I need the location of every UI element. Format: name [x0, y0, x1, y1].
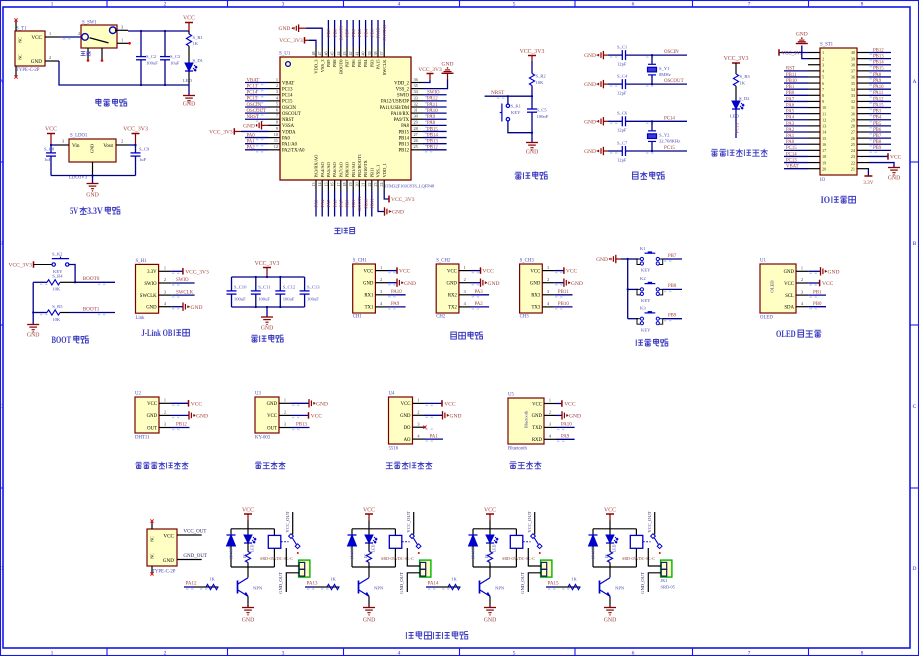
- svg-text:3: 3: [164, 289, 166, 294]
- wire emitter to ground: [489, 596, 491, 607]
- S_ST1 left net wires: [784, 70, 808, 72]
- unconnected pin marks on S_T1: [15, 21, 17, 31]
- svg-text:PB11: PB11: [369, 168, 374, 178]
- base resistor 1K: [568, 586, 581, 588]
- svg-text:VDD_1: VDD_1: [382, 163, 387, 177]
- svg-text:OLED: OLED: [770, 280, 775, 293]
- svg-text:2: 2: [801, 277, 803, 282]
- svg-text:D: D: [913, 566, 917, 572]
- svg-text:PB11: PB11: [370, 198, 375, 209]
- svg-text:VCC: VCC: [564, 402, 576, 408]
- svg-text:GND: GND: [86, 193, 99, 199]
- connector S_ST1 IO expansion: [820, 48, 857, 175]
- svg-text:VCC_3V3: VCC_3V3: [185, 269, 209, 275]
- svg-text:PC13: PC13: [247, 84, 258, 89]
- svg-text:Vin: Vin: [72, 143, 80, 149]
- svg-text:PB7: PB7: [873, 134, 882, 139]
- svg-text:2: 2: [284, 410, 286, 415]
- svg-text:1: 1: [822, 50, 824, 55]
- svg-text:GND: GND: [604, 618, 617, 624]
- svg-text:S_C3: S_C3: [170, 54, 181, 59]
- svg-text:S_R4: S_R4: [52, 274, 63, 279]
- svg-text:A: A: [913, 79, 917, 85]
- net VCC_OUT wire (contact): [413, 512, 415, 535]
- svg-text:PA2: PA2: [786, 128, 795, 133]
- chip top net wires and rotated labels: [327, 20, 329, 47]
- svg-text:VCC_OUT: VCC_OUT: [183, 530, 206, 535]
- svg-text:S_CH2: S_CH2: [436, 259, 451, 264]
- svg-text:PB14: PB14: [399, 136, 410, 141]
- svg-text:PB6: PB6: [351, 59, 356, 68]
- chip left pins with numbers and names: [268, 82, 280, 84]
- svg-text:32: 32: [414, 101, 418, 106]
- svg-text:GND_OUT: GND_OUT: [399, 572, 404, 594]
- svg-text:25: 25: [851, 142, 855, 147]
- net PA9 wire: [556, 438, 575, 440]
- svg-text:2: 2: [78, 31, 80, 36]
- svg-text:OSCOUT: OSCOUT: [282, 112, 301, 117]
- svg-text:PB13: PB13: [296, 423, 307, 428]
- net PB11 wire: [554, 294, 572, 296]
- svg-text:PA8: PA8: [427, 121, 436, 126]
- svg-text:23: 23: [851, 154, 855, 159]
- svg-text:BOOT: BOOT: [52, 335, 72, 345]
- svg-text:VCC: VCC: [163, 533, 174, 539]
- svg-text:PA5: PA5: [786, 110, 795, 115]
- flyback diode 1N4007: [472, 529, 474, 535]
- svg-text:PA10/RX: PA10/RX: [391, 112, 410, 117]
- power VCC at U4: [425, 402, 443, 404]
- header S_H1 J-Link: [136, 264, 159, 313]
- svg-text:3: 3: [276, 89, 278, 94]
- svg-text:SWCLK: SWCLK: [382, 24, 387, 41]
- svg-text:1: 1: [121, 37, 123, 42]
- svg-text:PA9: PA9: [427, 115, 436, 120]
- svg-text:PA3: PA3: [786, 122, 795, 127]
- svg-text:SRD-05VDC-SL-C: SRD-05VDC-SL-C: [260, 556, 293, 561]
- svg-text:S_C12: S_C12: [283, 284, 296, 289]
- svg-text:SRD-05VDC-SL-C: SRD-05VDC-SL-C: [622, 556, 655, 561]
- svg-text:U5: U5: [508, 393, 514, 398]
- svg-text:LED: LED: [613, 544, 617, 552]
- ground GND at S_H1 pin 4: [171, 306, 183, 308]
- svg-text:S_CH3: S_CH3: [520, 259, 535, 264]
- svg-text:5516: 5516: [389, 447, 399, 452]
- svg-text:B: B: [0, 241, 4, 247]
- svg-text:PA15: PA15: [873, 103, 884, 108]
- svg-text:33: 33: [851, 93, 855, 98]
- svg-text:PA4/AO: PA4/AO: [320, 161, 325, 177]
- power 3.3V at pin 21: [867, 169, 870, 176]
- svg-text:10K: 10K: [536, 80, 545, 85]
- svg-text:PB11: PB11: [558, 290, 569, 295]
- ground GND at VSS_1 pin 23: [378, 191, 385, 212]
- svg-text:VCC: VCC: [242, 507, 254, 513]
- svg-text:2: 2: [549, 410, 551, 415]
- svg-text:PB5: PB5: [873, 122, 882, 127]
- svg-text:PA1: PA1: [786, 134, 795, 139]
- svg-text:3: 3: [282, 651, 285, 656]
- svg-text:PB3: PB3: [873, 110, 882, 115]
- svg-text:12pF: 12pF: [617, 128, 627, 133]
- ground GND at pin 22: [869, 163, 894, 167]
- svg-text:PB6: PB6: [873, 128, 882, 133]
- svg-text:S_C7: S_C7: [617, 140, 628, 145]
- svg-text:2: 2: [121, 139, 123, 144]
- svg-text:PA10: PA10: [391, 290, 402, 295]
- svg-text:VCC_3V3: VCC_3V3: [8, 263, 32, 269]
- wire emitter to ground: [247, 596, 249, 607]
- svg-text:RXD: RXD: [532, 438, 543, 443]
- svg-text:TX1: TX1: [365, 306, 374, 311]
- title 温湿度检测模块: [135, 462, 142, 468]
- svg-text:1K: 1K: [330, 577, 336, 582]
- net PA10 wire: [556, 426, 575, 428]
- svg-text:PA11/USB/DM: PA11/USB/DM: [380, 106, 410, 111]
- svg-text:S_C6: S_C6: [617, 111, 628, 116]
- svg-text:K1: K1: [640, 246, 646, 251]
- module U5 Bluetooth: [508, 398, 544, 444]
- svg-text:PA11: PA11: [873, 91, 884, 96]
- relay coil SRD-05VDC-SL-C: [515, 529, 517, 536]
- svg-text:PB8: PB8: [332, 28, 337, 37]
- svg-text:10K: 10K: [52, 317, 61, 322]
- no-connect pin at U4: [423, 426, 426, 429]
- svg-text:100uF: 100uF: [307, 297, 319, 302]
- net PA3 wire: [471, 294, 489, 296]
- svg-text:8: 8: [822, 93, 824, 98]
- svg-text:PA5/AO: PA5/AO: [326, 161, 331, 177]
- svg-text:2: 2: [164, 410, 166, 415]
- svg-text:OUT: OUT: [267, 426, 277, 431]
- net PB9 wire: [663, 318, 682, 320]
- capacitor S_C9 1uF: [135, 145, 137, 153]
- power VCC_3V3 at S_H1 pin 1: [171, 270, 183, 272]
- power VCC at U3: [291, 414, 309, 416]
- flyback diode 1N4007: [592, 529, 594, 535]
- net PB13 wire: [291, 427, 310, 429]
- svg-text:PB9: PB9: [326, 28, 331, 37]
- svg-text:D: D: [0, 566, 4, 572]
- svg-text:1: 1: [549, 398, 551, 403]
- svg-text:S_D1: S_D1: [193, 58, 204, 63]
- flyback diode 1N4007: [351, 529, 353, 535]
- chip right net wires and labels: [423, 94, 447, 96]
- svg-text:1N4007: 1N4007: [230, 547, 234, 560]
- svg-text:GND: GND: [196, 414, 208, 420]
- svg-text:PB10: PB10: [558, 302, 569, 307]
- svg-text:42: 42: [348, 52, 353, 56]
- svg-text:1K: 1K: [451, 577, 457, 582]
- svg-text:1: 1: [380, 265, 382, 270]
- capacitor S_C8 1uF: [50, 145, 52, 153]
- LED S_D1: [185, 63, 193, 71]
- svg-text:38: 38: [851, 62, 855, 67]
- resistor S_R1 1K: [188, 31, 190, 34]
- wire relay top rail: [473, 528, 516, 530]
- svg-text:1: 1: [51, 2, 54, 8]
- svg-text:VBAT: VBAT: [786, 165, 799, 170]
- svg-text:2: 2: [547, 277, 549, 282]
- module U3 KY-003: [255, 397, 279, 433]
- svg-text:9: 9: [276, 126, 278, 131]
- svg-text:S_Y1: S_Y1: [659, 66, 670, 71]
- svg-text:100uF: 100uF: [146, 61, 158, 66]
- terminal block connector: [420, 560, 431, 577]
- svg-text:VCC: VCC: [267, 414, 277, 419]
- svg-text:IO: IO: [820, 178, 826, 183]
- svg-text:23: 23: [373, 183, 378, 187]
- svg-text:VCC: VCC: [484, 507, 496, 513]
- svg-text:BOOT0: BOOT0: [339, 25, 344, 41]
- svg-text:PB1/AO: PB1/AO: [351, 161, 356, 177]
- svg-text:GND: GND: [400, 414, 411, 419]
- svg-text:S_C10: S_C10: [234, 284, 247, 289]
- svg-text:15: 15: [822, 136, 826, 141]
- svg-text:11: 11: [274, 138, 278, 143]
- svg-text:VCC_3V3: VCC_3V3: [209, 129, 233, 135]
- svg-text:NPN: NPN: [253, 586, 263, 591]
- resistor S_R5 10K: [33, 312, 47, 314]
- relay LED: [489, 529, 491, 535]
- svg-text:LED: LED: [730, 114, 740, 119]
- svg-text:RX2: RX2: [448, 294, 458, 299]
- svg-text:SRD-05VDC-SL-C: SRD-05VDC-SL-C: [502, 556, 535, 561]
- svg-text:PB9: PB9: [873, 146, 882, 151]
- title 程序运行指示灯: [711, 149, 718, 156]
- svg-text:GND: GND: [242, 618, 255, 624]
- svg-text:5: 5: [276, 101, 278, 106]
- svg-text:8MHz: 8MHz: [659, 72, 671, 77]
- svg-text:1: 1: [417, 398, 419, 403]
- svg-text:GND_OUT: GND_OUT: [183, 554, 207, 559]
- svg-text:B: B: [913, 241, 917, 247]
- svg-text:3: 3: [164, 422, 166, 427]
- svg-text:GND: GND: [828, 269, 840, 275]
- switch bottom stubs (n.c.): [87, 48, 89, 60]
- svg-text:GND: GND: [191, 305, 203, 311]
- svg-text:NC: NC: [151, 553, 155, 559]
- svg-text:S_C5: S_C5: [537, 108, 548, 113]
- svg-text:PB15: PB15: [427, 127, 438, 132]
- ground GND (reset): [531, 133, 533, 142]
- title 晶振电路: [633, 172, 639, 179]
- wire relay top rail: [231, 528, 274, 530]
- svg-text:GND: GND: [147, 414, 158, 419]
- svg-text:3: 3: [547, 289, 549, 294]
- svg-text:GND_OUT: GND_OUT: [278, 572, 283, 594]
- svg-text:A: A: [0, 79, 4, 85]
- svg-text:Link: Link: [136, 316, 146, 321]
- svg-text:GND: GND: [584, 119, 596, 125]
- capacitor S_C7 12pF: [608, 150, 622, 152]
- net VCC_OUT wire (contact): [534, 512, 536, 535]
- svg-text:TX2: TX2: [448, 306, 457, 311]
- power VCC at S_CH1: [388, 270, 398, 272]
- svg-text:GND: GND: [446, 282, 457, 287]
- svg-text:5V: 5V: [70, 206, 78, 216]
- svg-text:2: 2: [464, 277, 466, 282]
- svg-text:C: C: [0, 404, 4, 410]
- ground GND (relay stage): [363, 607, 375, 609]
- svg-text:PA10: PA10: [561, 423, 572, 428]
- svg-text:32: 32: [851, 99, 855, 104]
- svg-text:SCL: SCL: [785, 294, 794, 299]
- switch S_SW1: [81, 25, 117, 48]
- svg-text:1K: 1K: [209, 577, 215, 582]
- transistor NPN: [368, 567, 370, 578]
- ground GND (relay stage): [242, 607, 254, 609]
- svg-text:18: 18: [822, 154, 826, 159]
- svg-text:47: 47: [317, 52, 322, 56]
- svg-text:10: 10: [822, 105, 826, 110]
- svg-text:10uF: 10uF: [170, 61, 180, 66]
- svg-text:VCC: VCC: [399, 269, 411, 275]
- svg-text:SDA: SDA: [784, 306, 794, 311]
- svg-text:PB0/AO: PB0/AO: [345, 161, 350, 177]
- connector TYPE-C-2P (relay power): [147, 529, 177, 566]
- svg-text:6: 6: [632, 2, 635, 8]
- svg-text:VCC: VCC: [191, 401, 203, 407]
- svg-text:3: 3: [282, 2, 285, 8]
- wire key bus: [621, 258, 628, 260]
- relay coil SRD-05VDC-SL-C: [635, 529, 637, 536]
- svg-text:PB0: PB0: [813, 302, 822, 307]
- svg-text:NC: NC: [19, 54, 23, 60]
- svg-text:VCC_OUT: VCC_OUT: [527, 511, 532, 532]
- svg-text:U1: U1: [760, 259, 766, 264]
- svg-text:VCC: VCC: [530, 269, 540, 274]
- svg-text:PB8: PB8: [332, 59, 337, 68]
- svg-text:9: 9: [822, 99, 824, 104]
- svg-text:RX3: RX3: [531, 294, 541, 299]
- svg-text:PB6: PB6: [351, 28, 356, 37]
- svg-text:OSCOUT: OSCOUT: [247, 109, 267, 114]
- svg-text:S_C9: S_C9: [139, 147, 150, 152]
- wire power ground bus: [45, 60, 59, 62]
- capacitor S_C10 100uF: [231, 277, 233, 291]
- net SWCLK wire: [171, 294, 194, 296]
- net GND_OUT wire (terminal): [648, 573, 661, 592]
- svg-text:28: 28: [851, 124, 855, 129]
- svg-text:21: 21: [851, 166, 855, 171]
- wire relay bottom rail: [231, 566, 274, 568]
- ground GND at pin 2: [802, 46, 808, 59]
- power VCC at U5 pin 1: [556, 403, 562, 405]
- svg-text:14: 14: [317, 183, 322, 187]
- svg-text:PA10: PA10: [427, 109, 438, 114]
- svg-text:TXD: TXD: [532, 426, 542, 431]
- svg-text:35: 35: [414, 83, 418, 88]
- chip bottom net wires and rotated labels: [315, 191, 317, 217]
- push button S_K2 KEY: [52, 263, 55, 266]
- net VCC_OUT wire (contact): [654, 512, 656, 535]
- net BOOT0 wire: [75, 281, 115, 283]
- capacitor S_C6 12pF: [608, 120, 622, 122]
- svg-text:48: 48: [311, 52, 316, 56]
- svg-text:PA10: PA10: [873, 85, 884, 90]
- svg-text:VDDA: VDDA: [282, 130, 296, 135]
- svg-text:39: 39: [367, 52, 372, 56]
- svg-text:PB4: PB4: [363, 28, 368, 37]
- svg-text:46: 46: [323, 52, 328, 56]
- svg-text:VCC: VCC: [363, 507, 375, 513]
- svg-text:7: 7: [748, 651, 751, 656]
- relay LED: [247, 529, 249, 535]
- svg-text:PA2/TX/A0: PA2/TX/A0: [282, 149, 305, 154]
- svg-text:37: 37: [379, 52, 384, 56]
- svg-text:28: 28: [414, 126, 418, 131]
- svg-text:S_U1: S_U1: [279, 52, 291, 57]
- svg-text:43: 43: [342, 52, 347, 56]
- transistor NPN: [609, 567, 611, 578]
- svg-text:PC14: PC14: [282, 94, 293, 99]
- svg-text:12: 12: [274, 144, 278, 149]
- svg-text:PA15: PA15: [548, 582, 559, 587]
- svg-text:40: 40: [361, 52, 366, 56]
- svg-text:PB1: PB1: [786, 85, 795, 90]
- module U2 DHT11: [135, 397, 159, 433]
- power VCC_3V3 at VDD_2 pin 36: [423, 80, 430, 83]
- svg-text:1K: 1K: [193, 41, 199, 46]
- svg-text:PA0: PA0: [247, 133, 256, 138]
- svg-text:K2: K2: [640, 276, 646, 281]
- svg-text:GND: GND: [796, 32, 808, 38]
- svg-text:VCC: VCC: [890, 154, 902, 160]
- svg-text:VCC_3V3: VCC_3V3: [391, 197, 415, 203]
- svg-text:GND: GND: [261, 326, 274, 332]
- svg-text:NC: NC: [19, 37, 23, 43]
- relay series resistor 1K: [609, 543, 611, 552]
- net PB0 wire: [808, 306, 826, 308]
- net BOOT1 wire: [70, 312, 115, 314]
- svg-text:VCC_OUT: VCC_OUT: [406, 511, 411, 532]
- svg-text:PA9: PA9: [561, 435, 570, 440]
- svg-text:VCC_3V3: VCC_3V3: [520, 49, 545, 55]
- svg-text:PB9: PB9: [326, 59, 331, 68]
- svg-text:PA12: PA12: [427, 97, 438, 102]
- flyback diode 1N4007: [230, 529, 232, 535]
- power VCC at S_CH2: [471, 270, 481, 272]
- svg-text:SRD-05VDC-SL-C: SRD-05VDC-SL-C: [381, 556, 414, 561]
- svg-text:PB4: PB4: [873, 116, 882, 121]
- svg-text:PC15: PC15: [247, 97, 258, 102]
- base resistor 1K: [327, 586, 340, 588]
- svg-text:3: 3: [549, 422, 551, 427]
- svg-text:S_SW1: S_SW1: [82, 21, 97, 26]
- net PA10 wire: [388, 294, 406, 296]
- svg-text:TYPE-C-2P: TYPE-C-2P: [16, 68, 40, 73]
- svg-text:PC13: PC13: [282, 87, 293, 92]
- svg-text:PA11: PA11: [427, 103, 438, 108]
- S_ST1 pin stubs and numbers: [808, 52, 820, 54]
- svg-text:3: 3: [284, 422, 286, 427]
- svg-text:VDD_2: VDD_2: [394, 81, 409, 86]
- ground GND at S_CH2: [471, 282, 481, 284]
- svg-text:3: 3: [121, 24, 123, 29]
- svg-text:NRST: NRST: [491, 90, 505, 96]
- base resistor 1K: [206, 586, 219, 588]
- svg-text:GND: GND: [532, 414, 543, 419]
- svg-text:5: 5: [822, 75, 824, 80]
- ground GND (filter): [266, 307, 268, 317]
- svg-text:PA9: PA9: [391, 302, 400, 307]
- wire contact to terminal: [528, 548, 541, 566]
- svg-text:PB3: PB3: [370, 28, 375, 37]
- svg-text:GND: GND: [596, 257, 608, 263]
- ground GND at U2: [171, 414, 189, 416]
- svg-text:LED: LED: [183, 78, 193, 83]
